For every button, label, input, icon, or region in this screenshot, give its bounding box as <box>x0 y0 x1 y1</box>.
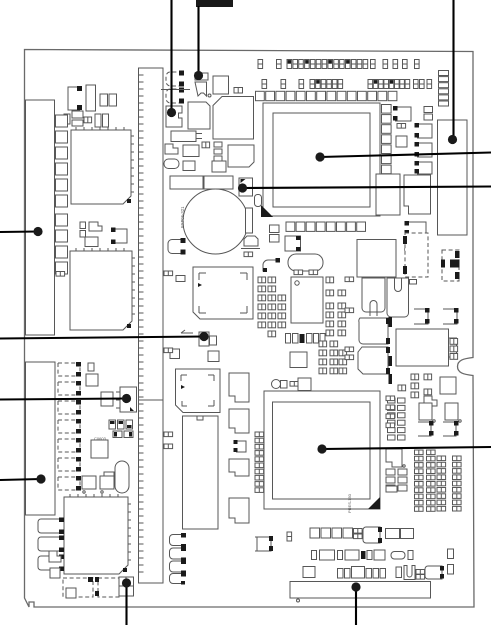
crystal Y3 <box>241 236 260 249</box>
connector J4 body left <box>362 278 385 316</box>
resistor field left of U20 <box>258 277 286 337</box>
connector J6 bottom bar <box>290 582 431 603</box>
resistor R8 <box>170 349 180 359</box>
capacitor C48 bracket <box>414 308 430 324</box>
bottom row B <box>312 550 414 560</box>
resistor R62 <box>448 565 454 575</box>
capacitor CE1 electrolytic <box>115 461 129 493</box>
resistor R9 <box>208 351 219 362</box>
capacitor C1 dashed bracket <box>166 71 184 87</box>
switch SW1 <box>119 577 134 596</box>
pad pair H <box>345 355 354 360</box>
pad pair C <box>164 432 173 437</box>
capacitor C61 <box>270 225 280 233</box>
resistor R43 <box>410 280 417 285</box>
capacitor C33 bracket <box>38 555 64 572</box>
resistor R36 <box>50 568 60 578</box>
IC U31 <box>376 174 400 215</box>
resistor R5 <box>212 161 226 172</box>
capacitor C47 bracket <box>443 308 459 324</box>
resistor R4 <box>183 161 195 171</box>
resistor R41 <box>397 124 406 129</box>
via field VF1 <box>415 450 462 511</box>
capacitor C30 <box>88 363 94 371</box>
resistor R61 <box>448 549 454 559</box>
resistor R34 <box>100 476 114 493</box>
connector J4 block <box>357 240 396 278</box>
capacitor C42 bracket <box>415 142 433 157</box>
capacitor C15 <box>80 222 86 229</box>
oscillator Y2 <box>171 131 202 142</box>
IC U22 <box>298 378 311 391</box>
resistor R24 <box>85 237 98 247</box>
pad pair G <box>345 347 354 352</box>
IC U16 <box>229 373 249 402</box>
resistor RP1 <box>86 85 96 111</box>
resistor R7 <box>176 276 185 282</box>
capacitor C32 bracket <box>38 536 64 553</box>
transistor Q1 <box>195 73 211 97</box>
resistor R31 <box>101 392 113 406</box>
resistor cluster right mid <box>398 374 437 406</box>
capacitor C5 <box>214 156 222 161</box>
capacitor C45 bracket <box>405 239 427 252</box>
connector J2 left edge <box>26 362 56 515</box>
IC U35 <box>386 449 405 467</box>
IC U18 <box>229 459 249 476</box>
resistor R30 <box>86 374 98 386</box>
capacitor C7 <box>255 195 262 207</box>
IC U13 PLCC <box>193 267 253 319</box>
IC U12 supervisor <box>239 178 253 196</box>
connector J1 left edge <box>26 100 55 335</box>
capacitor C62 <box>270 235 280 243</box>
capacitor C46 dashed <box>441 250 460 281</box>
pad pair E <box>345 277 354 282</box>
IC U9 regulator <box>116 387 137 412</box>
shield bracket SH1 <box>359 318 390 344</box>
svg-text:PRES-150: PRES-150 <box>347 493 352 513</box>
diode D2 <box>58 114 70 124</box>
IC U8 <box>228 145 254 167</box>
vertical pad column top right <box>439 71 449 107</box>
IC U36 <box>285 236 301 251</box>
dark strip pads <box>389 317 393 384</box>
capacitor C17 bracket <box>111 228 127 245</box>
IC U33 <box>419 403 435 422</box>
resistor R22 <box>84 117 92 123</box>
resistor R44 <box>440 377 456 394</box>
capacitor C4 <box>214 149 222 154</box>
IC U5 <box>188 102 210 129</box>
capacitor C16 <box>80 231 86 238</box>
svg-text:EXP06-321: EXP06-321 <box>180 206 185 228</box>
capacitor C6 <box>246 208 253 233</box>
resistor row RN2 <box>286 334 326 344</box>
resistor R1 <box>234 88 243 94</box>
capacitor C50 bracket <box>443 421 459 436</box>
capacitor C44 bracket <box>405 221 427 235</box>
capacitor C8 bracket <box>168 238 186 255</box>
IC U7 <box>183 145 199 157</box>
IC U15 PLCC <box>176 369 221 413</box>
callout target IC U14 <box>181 330 217 346</box>
shield bracket SH2 <box>358 347 390 374</box>
pad grid P3 <box>388 398 406 440</box>
lower-left dashed capacitor column <box>58 362 81 491</box>
connector P1 bus strip <box>139 68 164 583</box>
IC U21 <box>290 352 307 368</box>
capacitor C49 bracket <box>418 421 434 436</box>
pad pair B <box>164 348 173 353</box>
top pad row 2 <box>262 80 432 89</box>
IC U10 <box>91 440 108 458</box>
IC U20 rtc <box>291 277 323 323</box>
resistor R42 <box>396 136 407 147</box>
IC U2 flash <box>71 127 134 204</box>
callout line 7 <box>0 332 209 341</box>
battery BT1 <box>183 189 248 254</box>
capacitor C10 bracket <box>68 86 82 110</box>
resistor R32 <box>104 472 114 488</box>
capacitor C13 <box>95 114 101 127</box>
connector J3 module <box>438 120 468 235</box>
resistor field right of U20 <box>326 277 346 336</box>
pad grid P4 <box>386 469 407 492</box>
callout line 1 <box>167 0 176 117</box>
callout line 12 <box>351 582 360 625</box>
inductor L3 bracket <box>263 258 280 272</box>
IC U3 flash <box>70 248 135 330</box>
resistor R35 <box>49 551 61 562</box>
capacitor cluster C0603 <box>94 420 133 441</box>
jack J5 power <box>396 329 458 366</box>
dashed component X3 <box>95 577 119 597</box>
pad pair A <box>164 271 173 276</box>
IC U32 <box>404 175 431 214</box>
pad pair <box>56 272 65 277</box>
capacitor C2 dashed bracket <box>161 88 190 104</box>
callout line 6 <box>0 227 43 236</box>
pad pair F <box>345 308 354 313</box>
top pad row 1 <box>258 60 419 69</box>
resistor R60 <box>287 532 292 541</box>
inductor L2 <box>204 176 233 189</box>
capacitor C11 <box>72 111 83 118</box>
callout line 3 <box>448 0 457 144</box>
capacitor C14 <box>103 114 109 127</box>
pad pair D <box>164 444 173 449</box>
resistor R23 <box>89 222 102 231</box>
capacitor C43 bracket <box>415 161 433 174</box>
callout line 8 <box>0 394 131 403</box>
IC U30 controller QFP <box>255 391 380 513</box>
diode D1 <box>164 159 179 169</box>
resistor R2 <box>165 144 178 154</box>
IC U19 <box>229 498 249 523</box>
bottom row A <box>310 527 414 543</box>
resistor pack squares column <box>56 115 68 274</box>
resistor R3 <box>202 142 210 148</box>
IC U4 <box>213 76 229 94</box>
capacitor C40 bracket <box>393 106 411 121</box>
callout line 9 <box>0 474 46 483</box>
pad column right of U30 <box>386 396 395 428</box>
IC U11 flash <box>64 494 131 574</box>
IC U1 processor QFP <box>256 91 397 231</box>
capacitor CT1 <box>272 380 299 389</box>
dashed component X4 <box>403 233 428 277</box>
resistor R33 <box>82 476 96 493</box>
resistor R20 <box>100 94 108 106</box>
bottom row C <box>303 566 444 580</box>
crystal Y1 <box>288 254 323 275</box>
IC U17 <box>229 409 249 433</box>
capacitor C12 <box>72 120 83 126</box>
capacitor column CB1 <box>170 533 187 585</box>
callout line 4 <box>315 152 491 161</box>
callout line 5 <box>238 183 491 192</box>
IC U40 under dot1 <box>166 106 182 127</box>
capacitor C31 bracket <box>38 518 64 535</box>
connector P2 header <box>183 416 219 529</box>
connector J4 body right <box>387 278 409 317</box>
IC U34 <box>445 403 461 422</box>
capacitor C3 <box>214 142 222 147</box>
callout line 11 <box>122 578 131 625</box>
inductor L1 <box>170 176 203 189</box>
IC U6 <box>213 97 254 140</box>
capacitor C60 bracket <box>255 536 273 551</box>
callout line 10 <box>317 444 491 453</box>
capacitor C9 bracket <box>234 440 247 452</box>
resistor R6 <box>244 252 253 257</box>
dashed component X2 <box>63 577 93 598</box>
resistor R21 <box>109 94 117 106</box>
callout line 2 <box>194 0 233 80</box>
capacitor C41 bracket <box>415 123 433 138</box>
resistor grid RN3 <box>319 341 347 374</box>
resistor R40 <box>424 107 433 121</box>
